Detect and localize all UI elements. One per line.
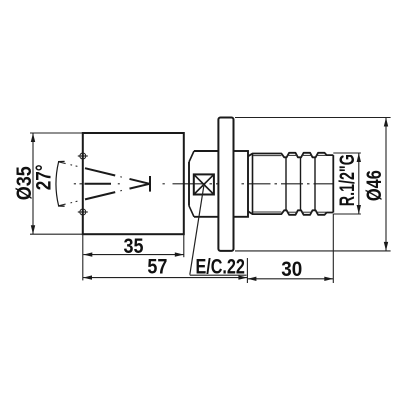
- 27 deg arc: [56, 162, 59, 206]
- center mark upper: [78, 153, 88, 159]
- 35 dimension extension left: [82, 234, 84, 280]
- centerline: [76, 183, 334, 185]
- 30 dimension extension right: [332, 214, 334, 283]
- svg-text:Ø35: Ø35: [13, 166, 36, 200]
- O46 dimension line: [385, 118, 387, 251]
- svg-text:R.1/2"G: R.1/2"G: [336, 154, 359, 206]
- center mark lower: [78, 209, 88, 215]
- thread root thin lines bottom: [253, 211, 326, 213]
- svg-text:35: 35: [124, 235, 144, 258]
- svg-text:E/C.22: E/C.22: [195, 255, 245, 278]
- spray cone middle segment: [85, 183, 112, 185]
- centerline dot inside collar: [242, 183, 245, 185]
- spray cone apex tick: [149, 176, 151, 192]
- barb chamfer edge: [252, 154, 254, 215]
- R half inch G dimension line: [358, 153, 360, 214]
- svg-text:57: 57: [147, 256, 167, 279]
- spray cone upper line: [59, 162, 150, 184]
- svg-text:30: 30: [281, 258, 302, 281]
- 35 dimension line: [83, 254, 184, 256]
- centerline pieces inside body: [74, 183, 184, 185]
- body cylinder O35: [83, 133, 184, 234]
- barb groove edge 1: [285, 157, 287, 210]
- O35 dimension line: [32, 133, 34, 234]
- hose barb right end: [332, 155, 334, 212]
- thread root thin lines top: [253, 154, 326, 156]
- neck boss: [189, 151, 218, 217]
- E/C.22 underline: [190, 274, 247, 276]
- 35 dimension extension right: [183, 234, 185, 257]
- 57 dimension extension right: [246, 258, 248, 283]
- O35 dimension extension bottom: [30, 233, 83, 235]
- 57 dimension line: [83, 277, 247, 279]
- barb groove edge 3: [314, 157, 316, 210]
- R half inch G dimension box bottom: [333, 213, 361, 215]
- flange: [218, 118, 233, 251]
- square E/C.22 symbol: [194, 174, 214, 194]
- hose barb top profile: [248, 153, 333, 158]
- barb groove edge 2: [300, 157, 302, 210]
- O46 dimension extension bottom: [235, 250, 391, 252]
- O46 dimension extension top: [235, 117, 391, 119]
- hose barb bottom profile: [248, 210, 333, 215]
- svg-text:Ø46: Ø46: [363, 170, 386, 201]
- spray cone lower line: [59, 184, 150, 206]
- O35 dimension extension top: [30, 132, 83, 134]
- arc end tick top: [58, 160, 65, 162]
- arc end tick bottom: [58, 205, 65, 207]
- 30 dimension line: [247, 278, 333, 280]
- R half inch G dimension box top: [333, 152, 361, 154]
- collar: [234, 151, 249, 217]
- leader line E/C.22: [190, 186, 204, 275]
